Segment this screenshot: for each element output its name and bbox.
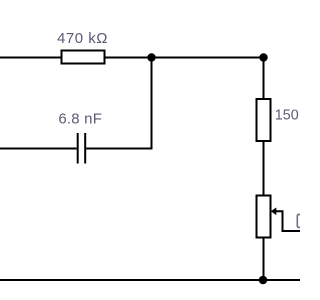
svg-text:6.8 nF: 6.8 nF (58, 111, 102, 128)
svg-text:470 kΩ: 470 kΩ (57, 30, 108, 47)
svg-text:150 kΩ: 150 kΩ (275, 108, 300, 124)
